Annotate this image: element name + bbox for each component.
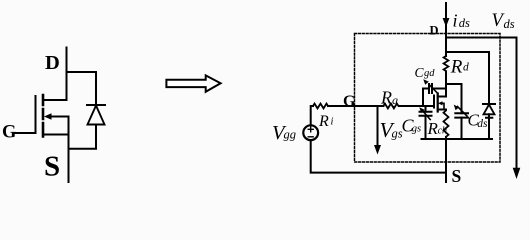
- capacitor C_gs variable arrow: [422, 110, 431, 120]
- svg-text:R: R: [380, 88, 392, 108]
- wire source lead (left MOSFET): [68, 135, 70, 183]
- arrow i_ds head: [443, 18, 450, 27]
- resistor R_g: [383, 104, 398, 109]
- MOSFET M1 body arrow: [441, 103, 445, 109]
- dashed device boundary box: [355, 34, 501, 163]
- svg-text:R: R: [450, 57, 463, 78]
- gate bar (left MOSFET): [35, 96, 37, 133]
- svg-text:gg: gg: [284, 128, 297, 142]
- svg-text:ds: ds: [459, 16, 470, 30]
- capacitor C_gs plates: [420, 112, 432, 116]
- svg-text:R: R: [318, 113, 329, 130]
- MOSFET channel bar (left, 3 segments): [42, 95, 45, 137]
- svg-text:ch: ch: [438, 126, 447, 137]
- wire source stub (left MOSFET): [43, 134, 69, 136]
- diode triangle (right): [484, 105, 495, 115]
- svg-text:g: g: [392, 93, 398, 107]
- resistor R_i: [313, 104, 328, 109]
- MOSFET M1 source stub: [438, 109, 446, 111]
- wire drain mid: [445, 72, 447, 97]
- source rail: [422, 138, 493, 140]
- body arrow (left MOSFET): [50, 117, 69, 135]
- body diode cathode bar: [87, 104, 105, 106]
- diode anode lead (right): [486, 114, 492, 139]
- body diode triangle: [88, 106, 105, 125]
- svg-text:d: d: [463, 62, 469, 74]
- arrow V_ds head: [513, 168, 521, 179]
- wire drain stub (left MOSFET): [43, 99, 67, 101]
- wire gate lead (left MOSFET): [16, 132, 36, 134]
- MOSFET M1 gate bar: [433, 96, 435, 108]
- svg-text:gd: gd: [424, 68, 435, 79]
- wire body diode branch (right): [446, 52, 489, 104]
- voltage source V_gg circle: [303, 125, 318, 140]
- wire V_ds sense: [446, 38, 517, 169]
- svg-text:G: G: [2, 123, 16, 143]
- wire drain lead (left MOSFET): [66, 48, 68, 101]
- resistor R_ch: [444, 110, 449, 137]
- V_gg minus sign: [308, 136, 313, 138]
- svg-text:S: S: [452, 166, 462, 186]
- wire body diode anode lead: [69, 125, 97, 149]
- wire gate to internal node: [399, 105, 434, 107]
- svg-text:i: i: [331, 117, 334, 128]
- capacitor C_ds plates: [455, 113, 468, 117]
- resistor R_d: [444, 56, 449, 71]
- capacitor C_gd plates: [429, 84, 432, 93]
- wire bottom return: [311, 140, 446, 173]
- MOSFET M1 channel bar: [437, 94, 439, 112]
- capacitor C_ds variable arrow: [458, 107, 468, 117]
- svg-text:ds: ds: [477, 118, 488, 130]
- wire C_gd branch: [423, 89, 446, 107]
- transform arrow: [166, 75, 220, 91]
- wire V_gg top lead: [311, 106, 313, 125]
- arrow V_gs: [377, 107, 379, 146]
- wire C_ds branch: [446, 84, 462, 139]
- wire source lead S: [445, 139, 447, 182]
- svg-text:i: i: [453, 11, 458, 31]
- svg-text:ds: ds: [504, 17, 515, 31]
- capacitor C_gs branch: [425, 106, 427, 139]
- wire gate net G: [328, 105, 383, 107]
- svg-text:S: S: [44, 151, 60, 183]
- wire R_ch to rail: [445, 137, 447, 139]
- capacitor C_gd variable arrow: [429, 85, 438, 94]
- svg-text:C: C: [415, 65, 425, 80]
- diode cathode bar (right): [483, 103, 495, 105]
- wire body diode cathode branch: [67, 72, 97, 105]
- svg-text:D: D: [45, 52, 60, 74]
- svg-text:gs: gs: [412, 124, 421, 135]
- wire drain top with i_ds: [445, 3, 447, 56]
- MOSFET M1 drain stub: [438, 96, 446, 98]
- V_gg plus sign: [308, 127, 313, 132]
- svg-text:D: D: [430, 24, 439, 38]
